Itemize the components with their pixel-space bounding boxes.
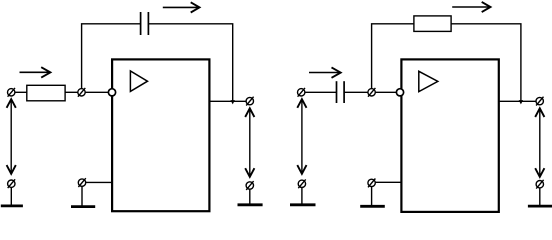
terminal input right ground side (298, 179, 306, 188)
ground at U1 pin (71, 186, 95, 206)
ground at input right (290, 188, 316, 205)
ground at output right (528, 188, 552, 206)
current arrow i1 right circuit (309, 67, 341, 77)
wire input terminal to resistor R1 (15, 91, 27, 93)
op-amp U1 triangle symbol (130, 71, 147, 91)
wire U1 ground pin to box (86, 181, 112, 183)
terminal U1 ground pin (78, 178, 86, 187)
op-amp U1 box (112, 59, 209, 211)
terminal U2 ground pin (368, 179, 376, 188)
wire resistor R2 to feedback drop (451, 24, 521, 101)
terminal output u2 (246, 97, 254, 106)
capacitor C1 (141, 12, 149, 35)
voltage arrow u1 right (input) (297, 99, 306, 174)
wire feedback riser from node B (372, 24, 415, 89)
op-amp U2 triangle symbol (419, 71, 438, 91)
voltage arrow u2 right (output) (535, 108, 544, 177)
op-amp U2 box (401, 59, 498, 212)
wire capacitor C2 to terminal B (344, 91, 368, 93)
wire feedback riser from node A (82, 24, 141, 89)
ground at U2 pin (360, 187, 385, 207)
capacitor C2 (337, 81, 345, 103)
terminal node A (op-amp input) (78, 88, 86, 97)
current arrow i2 above capacitor C1 (163, 2, 200, 12)
voltage arrow u2 (output) (245, 108, 254, 177)
terminal input right u1 (298, 88, 306, 97)
ground at output (238, 189, 263, 205)
wire capacitor C1 to feedback drop (148, 24, 232, 101)
terminal output right ground side (536, 180, 544, 189)
wire terminal A to junction (85, 91, 108, 93)
junction pin circle on U2 input (396, 89, 403, 96)
wire U1 output (209, 100, 246, 102)
junction arrow onto output wire right (519, 100, 523, 104)
resistor R1 (27, 85, 65, 101)
current arrow i1 above input (20, 67, 51, 77)
junction pin circle on U1 input (108, 89, 115, 96)
voltage arrow u1 (input) (7, 99, 16, 174)
wire terminal B to junction (375, 91, 396, 93)
terminal input left u1 (8, 88, 16, 97)
terminal input ground side (8, 179, 16, 188)
wire input terminal to capacitor C2 (305, 91, 337, 93)
terminal output ground side (246, 181, 254, 190)
wire U2 output (499, 100, 536, 102)
ground at input (1, 187, 23, 206)
terminal node B (op-amp input) (368, 88, 376, 97)
terminal output right u2 (536, 97, 544, 106)
resistor R2 (414, 16, 451, 32)
wire U2 ground pin to box (375, 181, 401, 183)
junction arrow onto output wire (231, 100, 235, 104)
current arrow i2 above resistor R2 (452, 2, 490, 12)
wire resistor R1 to terminal A (65, 91, 78, 93)
